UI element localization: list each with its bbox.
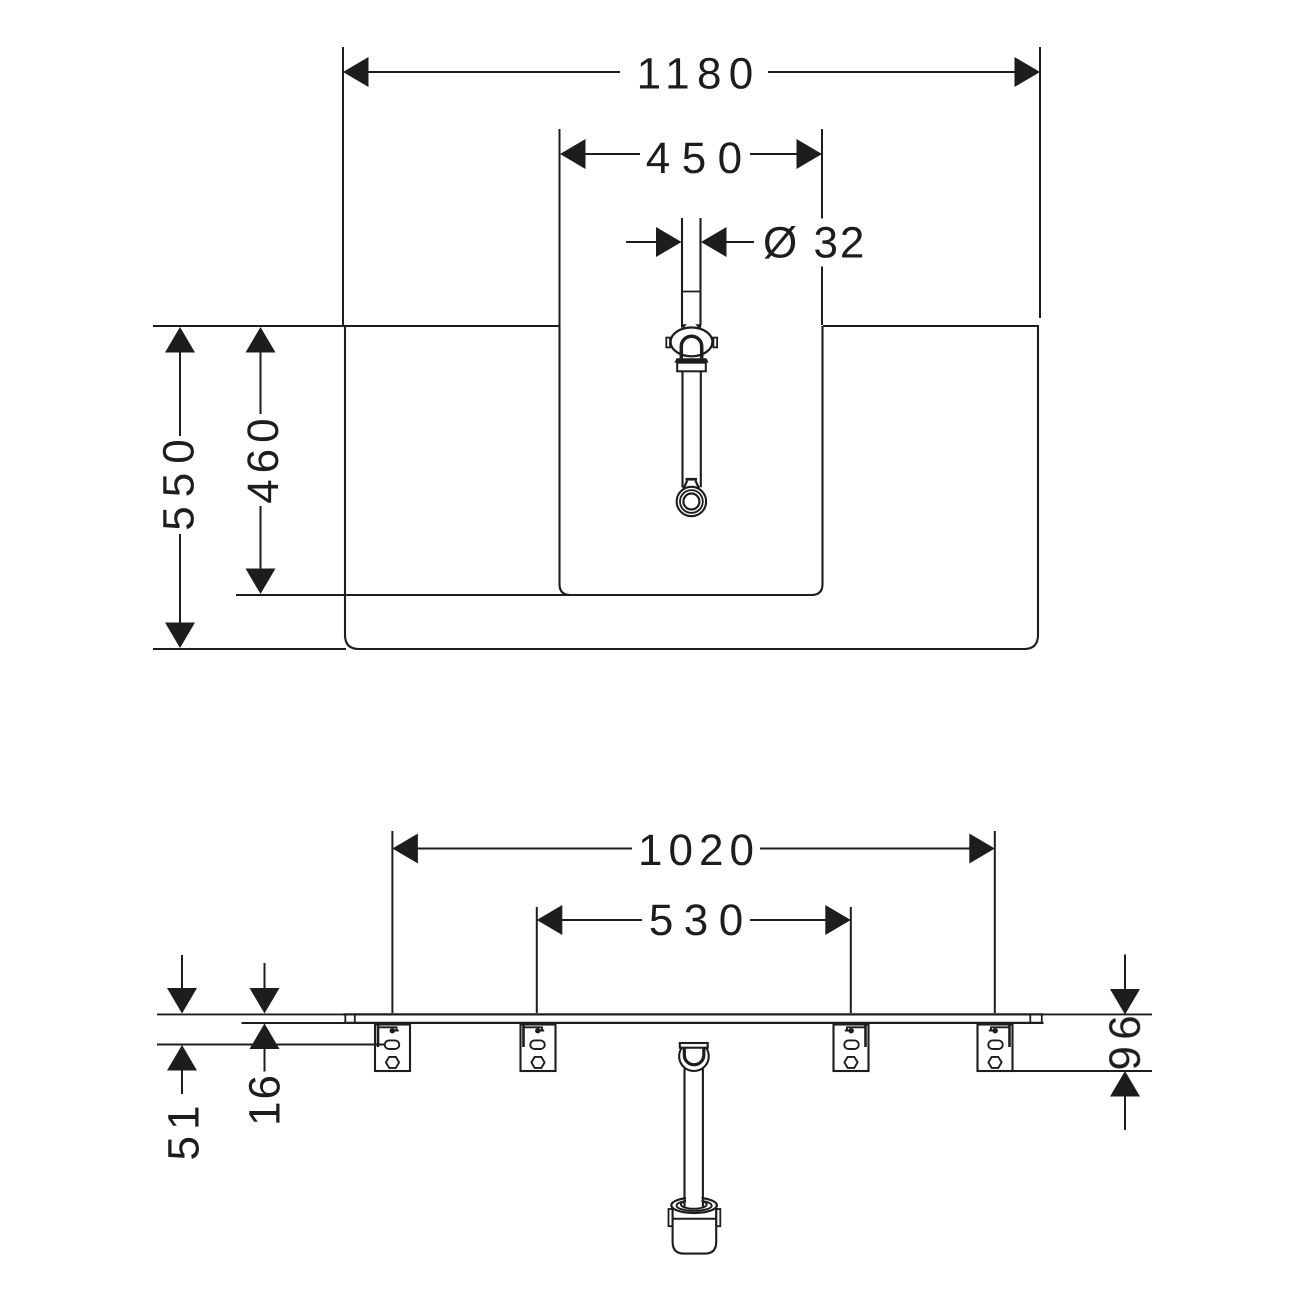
- svg-text:Ø 32: Ø 32: [763, 219, 866, 268]
- svg-text:1180: 1180: [637, 50, 761, 99]
- svg-text:16: 16: [240, 1073, 289, 1126]
- svg-text:96: 96: [1101, 1009, 1150, 1071]
- svg-text:1020: 1020: [638, 826, 760, 875]
- svg-text:450: 450: [646, 134, 754, 183]
- svg-text:460: 460: [239, 412, 288, 503]
- svg-text:530: 530: [649, 896, 754, 945]
- svg-text:51: 51: [159, 1100, 208, 1161]
- svg-text:550: 550: [155, 430, 204, 530]
